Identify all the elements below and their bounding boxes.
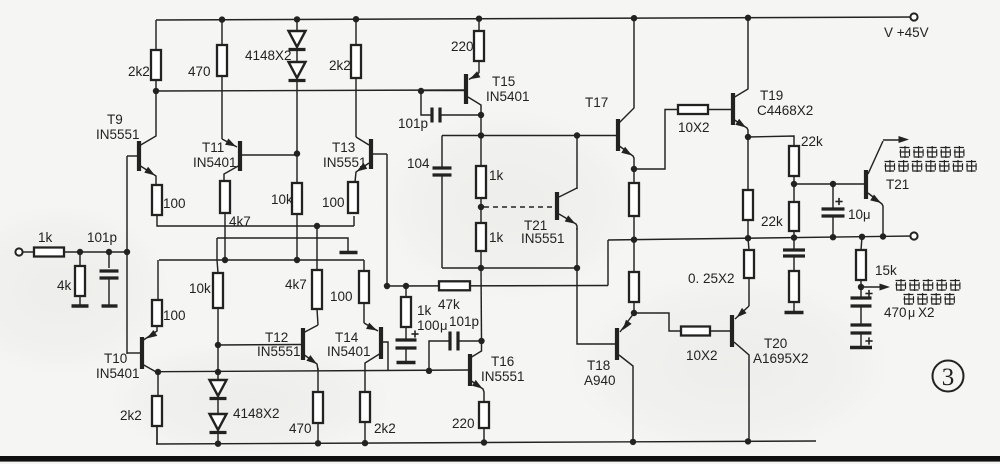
wire 2k2 to T13 collector — [355, 78, 357, 137]
wire T18 jog to 10X2 lower — [634, 313, 681, 331]
resistor 470 T12 emitter — [289, 392, 323, 443]
wire T15 node down to T18 base — [577, 268, 615, 344]
svg-text:1k: 1k — [489, 168, 504, 183]
label 470u X2 — [884, 305, 935, 320]
svg-text:10k: 10k — [189, 281, 211, 296]
resistor 100 T9 emitter — [152, 185, 186, 215]
node B: T15 base tap junction — [418, 88, 424, 94]
label 0.25X2 — [688, 271, 735, 286]
svg-text:T9: T9 — [107, 112, 123, 127]
transistor T21 protection IN5551 — [866, 141, 909, 237]
wire 470 to T11 emitter — [221, 76, 223, 139]
svg-text:4k7: 4k7 — [229, 214, 251, 229]
resistor 10X2 lower — [681, 327, 718, 364]
label 4148X2 upper — [245, 48, 292, 63]
svg-text:A1695X2: A1695X2 — [753, 351, 809, 366]
label midpoint detect line1 — [896, 279, 960, 291]
transistor T19 C4468X2 — [733, 18, 813, 137]
svg-text:4148X2: 4148X2 — [233, 406, 280, 421]
capacitor 10u T21 base — [822, 184, 871, 237]
node line3 junction 4k7 — [222, 257, 228, 263]
transistor T20 A1695X2 — [732, 306, 809, 441]
node T19 column on output rail — [745, 235, 751, 241]
node bottom rail junctions — [215, 438, 751, 447]
svg-text:0. 25X2: 0. 25X2 — [688, 271, 735, 286]
svg-text:3: 3 — [942, 364, 955, 391]
svg-text:22k: 22k — [761, 214, 783, 229]
resistor 220 T16 emitter — [452, 402, 489, 443]
svg-text:10X2: 10X2 — [678, 120, 710, 135]
terminator bar x794 — [785, 311, 804, 314]
output terminal — [910, 232, 917, 239]
wire output mid rail — [608, 236, 914, 240]
ground mid bar — [340, 251, 358, 254]
wire input to 1k — [22, 251, 34, 253]
wire rail to diode D1 — [296, 19, 298, 31]
node output rail junctions — [791, 233, 886, 241]
node T19 emitter junction — [745, 134, 751, 140]
resistor 220 T15 emitter — [451, 19, 484, 73]
svg-text:47k: 47k — [438, 297, 460, 312]
node 10u tap — [830, 181, 836, 187]
svg-text:10k: 10k — [271, 192, 293, 207]
svg-text:101p: 101p — [449, 314, 479, 329]
svg-text:μ: μ — [440, 318, 448, 333]
resistor 10X2 upper — [678, 105, 710, 135]
wire 10X2 lower to T20 base — [710, 330, 730, 332]
svg-text:IN5551: IN5551 — [481, 369, 525, 384]
resistor 100 T10 emitter — [152, 300, 162, 326]
svg-text:T14: T14 — [335, 330, 359, 345]
svg-text:IN5551: IN5551 — [323, 155, 367, 170]
wire dashed T21 base link — [484, 206, 553, 208]
resistor 22k T19 emitter — [743, 137, 753, 238]
resistor 1k bias divider upper — [476, 135, 504, 207]
scan edge black band — [0, 456, 1000, 462]
diode D1 4148 — [289, 31, 306, 50]
transistor T10 IN5401 — [96, 325, 158, 381]
diode D4 4148 lower — [210, 414, 227, 433]
wire input column to T9/T10 bases — [126, 156, 128, 354]
ground under 4k — [72, 304, 89, 307]
resistor 22k T17 emitter — [629, 169, 639, 240]
resistor 10k T12 base — [189, 238, 223, 345]
transistor T12 IN5551 — [257, 325, 318, 370]
wire T12 base — [218, 344, 301, 347]
wire D3 to D4 — [217, 399, 219, 415]
svg-text:T21: T21 — [886, 177, 909, 192]
resistor 0.25X2 left — [629, 240, 639, 313]
resistor 4k input shunt — [57, 252, 85, 306]
svg-text:IN5401: IN5401 — [486, 89, 530, 104]
svg-text:100: 100 — [163, 308, 186, 323]
svg-text:4k7: 4k7 — [285, 277, 307, 292]
svg-text:10: 10 — [848, 207, 863, 222]
svg-text:IN5401: IN5401 — [193, 155, 237, 170]
svg-text:101p: 101p — [398, 116, 428, 131]
capacitor 101p T15 compensation — [398, 91, 481, 131]
svg-text:C4468X2: C4468X2 — [757, 103, 813, 118]
resistor 100 T14 emitter — [330, 271, 369, 323]
capacitor 104 bias bypass — [407, 136, 452, 269]
svg-text:T16: T16 — [491, 354, 514, 369]
svg-text:15k: 15k — [875, 263, 897, 278]
resistor 15k midpoint detect — [856, 237, 897, 287]
node T11 base junction — [294, 150, 300, 156]
resistor 47k feedback — [438, 281, 470, 312]
node diode chain top on rail — [294, 16, 300, 22]
wire T12 emitter to 470 — [317, 368, 319, 392]
wire D1 to D2 — [296, 50, 298, 63]
svg-text:μ: μ — [908, 306, 915, 320]
svg-text:X2: X2 — [918, 305, 935, 320]
svg-text:2k2: 2k2 — [374, 421, 396, 436]
wire tail ground line2 — [217, 238, 348, 251]
node feedback corner — [384, 283, 390, 289]
resistor 2k2 T14 collector — [360, 392, 396, 443]
resistor 22k lower — [761, 202, 799, 238]
svg-text:T19: T19 — [760, 88, 783, 103]
node bias bottom right junction — [574, 265, 580, 271]
transistor T16 IN5551 — [470, 341, 525, 402]
node T12 base junction — [215, 342, 221, 348]
svg-text:V +45V: V +45V — [884, 25, 929, 40]
svg-text:2k2: 2k2 — [128, 64, 150, 79]
svg-text:IN5401: IN5401 — [327, 344, 371, 359]
wire T21 emitter down — [576, 228, 578, 268]
node input junction dots — [77, 249, 130, 255]
node bias top right junction — [574, 132, 580, 138]
svg-text:T12: T12 — [265, 330, 288, 345]
capacitor feedback other channel — [783, 238, 805, 271]
node bias bottom junction — [478, 265, 484, 271]
node bias top junction — [478, 132, 484, 138]
wire bias bottom line — [442, 267, 577, 269]
node 101p lower tap — [478, 338, 484, 344]
wire T10 collector line to T16 base — [158, 370, 468, 372]
node T18 emitter junction — [631, 310, 637, 316]
node 101p tap on T16 base line — [426, 368, 432, 374]
svg-text:T13: T13 — [332, 140, 355, 155]
wire 22k mid — [793, 176, 795, 202]
node line3 junction 10k bias — [294, 257, 300, 263]
node diode/T10 line junction — [215, 369, 221, 375]
resistor 1k feedback shunt — [401, 286, 432, 327]
svg-text:4k: 4k — [57, 278, 72, 293]
svg-text:470: 470 — [289, 421, 312, 436]
wire 22k mid to T21 base — [794, 183, 864, 185]
svg-text:100: 100 — [417, 318, 440, 333]
node 15k bottom junction — [858, 284, 864, 290]
node A: 2k2/T9 collector junction — [153, 88, 159, 94]
svg-text:470: 470 — [884, 305, 907, 320]
transistor T11 IN5401 — [193, 139, 297, 182]
node 220 top on rail — [476, 16, 482, 22]
wire 1k to input node — [64, 251, 127, 253]
wire 2k2 T10 col to rail corner — [156, 426, 158, 444]
svg-text:100: 100 — [330, 289, 353, 304]
wire T9 collector to 2k2 node, y91 rail to T15 base — [156, 90, 464, 91]
svg-text:220: 220 — [451, 39, 474, 54]
resistor feedback other channel — [789, 271, 799, 312]
svg-text:100: 100 — [322, 195, 345, 210]
wire +45V top supply rail — [156, 17, 914, 20]
wire T21 collector up — [576, 135, 578, 189]
svg-text:T17: T17 — [585, 95, 608, 110]
svg-text:IN5401: IN5401 — [96, 366, 140, 381]
svg-text:T11: T11 — [202, 140, 224, 155]
power terminal V +45V — [884, 13, 929, 40]
svg-text:T18: T18 — [587, 358, 610, 373]
wire 10k col to diode chain — [217, 345, 219, 380]
svg-text:220: 220 — [452, 416, 475, 431]
svg-text:1k: 1k — [38, 230, 53, 245]
wire line3 down to T10 100 — [157, 260, 159, 300]
node 1k nfb junction — [403, 283, 409, 289]
wire line1 to 100 under T13 — [353, 216, 355, 226]
wire arrow to midpoint detect circuit — [861, 284, 890, 291]
svg-text:IN5551: IN5551 — [521, 231, 565, 246]
capacitor 101p input shunt — [87, 230, 119, 306]
capacitor 470u upper — [851, 287, 873, 325]
wire -rail bottom — [156, 441, 816, 444]
svg-text:T15: T15 — [492, 74, 515, 89]
diode D3 4148 lower — [210, 380, 227, 399]
diode D2 4148 — [289, 62, 306, 81]
svg-text:A940: A940 — [584, 373, 616, 388]
svg-text:22k: 22k — [801, 134, 823, 149]
svg-text:470: 470 — [188, 64, 211, 79]
resistor 1k bias divider lower — [476, 207, 504, 268]
svg-text:1k: 1k — [489, 230, 504, 245]
wire feedback line — [387, 285, 608, 288]
svg-text:104: 104 — [407, 156, 430, 171]
wire T10 emitter tail line3 — [159, 259, 364, 261]
node T17 emitter junction — [631, 166, 637, 172]
label 4148X2 lower — [233, 406, 280, 421]
transistor T21 bias servo IN5551 — [521, 188, 577, 246]
wire 22k chain tap — [748, 136, 794, 146]
transistor T13 IN5551 — [323, 137, 387, 182]
node T17 collector on rail — [631, 15, 637, 21]
wire bias top line — [442, 135, 577, 137]
transistor T14 IN5401 — [327, 323, 388, 392]
wire T13 base to feedback node — [386, 154, 388, 286]
wire 47k to output rail — [607, 240, 609, 286]
resistor 4k7 T12 collector — [285, 226, 322, 325]
node T10 collector junction — [155, 369, 161, 375]
svg-text:IN5551: IN5551 — [96, 127, 140, 142]
figure number 3 — [933, 361, 964, 392]
svg-text:2k2: 2k2 — [120, 408, 142, 423]
transistor T9 IN5551 — [96, 91, 156, 185]
node 2k2 top on rail — [353, 16, 359, 22]
svg-text:μ: μ — [863, 207, 871, 222]
node bias divider mid — [478, 204, 484, 210]
wire T17 emitter jog to 10X2 — [634, 110, 678, 170]
svg-text:T10: T10 — [104, 351, 127, 366]
transistor T18 A940 — [584, 313, 634, 442]
wire T21 collector arrow to protection circuit — [883, 136, 909, 143]
label speaker protection line1 — [900, 146, 964, 158]
resistor 1k input — [34, 230, 64, 257]
svg-text:1k: 1k — [417, 303, 432, 318]
ground under 101p input cap — [102, 304, 118, 307]
resistor 4k7 T11 collector — [220, 181, 251, 260]
label midpoint detect line2 — [904, 293, 955, 305]
resistor 10k bias chain — [271, 154, 302, 260]
svg-text:IN5551: IN5551 — [257, 344, 301, 359]
svg-text:10X2: 10X2 — [686, 348, 718, 363]
input terminal — [15, 248, 22, 255]
svg-text:T20: T20 — [764, 336, 787, 351]
svg-text:2k2: 2k2 — [329, 58, 351, 73]
node T17 column on output rail — [631, 237, 637, 243]
resistor 100 T13 emitter — [322, 182, 358, 213]
wire VAS column to T16 collector — [480, 268, 483, 341]
wire T15 collector to bias top — [480, 115, 482, 135]
capacitor 100u feedback — [396, 318, 448, 362]
transistor T15 IN5401 — [421, 71, 530, 115]
wire 10X2 to T19 base — [708, 109, 731, 111]
svg-text:4148X2: 4148X2 — [245, 48, 292, 63]
wire line3 right end to 100 above T14 — [363, 260, 365, 271]
node 470 top on +45V rail — [219, 16, 225, 22]
terminator bar under 470u — [850, 346, 872, 349]
node 22k mid junction — [791, 181, 797, 187]
label 100 T10 emitter — [163, 308, 186, 323]
resistor 2k2 T9 collector load — [128, 20, 161, 91]
resistor 0.25X2 right — [744, 238, 754, 306]
node 4k7 top on line1 — [314, 223, 320, 229]
resistor 22k upper — [789, 134, 823, 176]
node T19 collector on rail — [745, 15, 751, 21]
ground bar under 100u — [397, 361, 416, 364]
resistor 2k2 T13 collector load — [329, 19, 361, 78]
node T15 collector 101p junction — [478, 112, 484, 118]
svg-text:100: 100 — [163, 196, 186, 211]
wire T9 100 to tail line1 — [157, 215, 354, 226]
label speaker protection line2 — [885, 160, 977, 172]
svg-text:101p: 101p — [87, 230, 117, 245]
capacitor 470u lower — [851, 325, 873, 347]
transistor T17 — [577, 18, 634, 169]
capacitor 101p T16 compensation — [429, 314, 482, 371]
resistor 2k2 T10 collector — [120, 372, 162, 444]
wire D4 to bottom rail — [217, 433, 219, 444]
resistor 470 T11 emitter load — [188, 19, 227, 79]
wire D2 to T11 base node — [296, 81, 298, 154]
